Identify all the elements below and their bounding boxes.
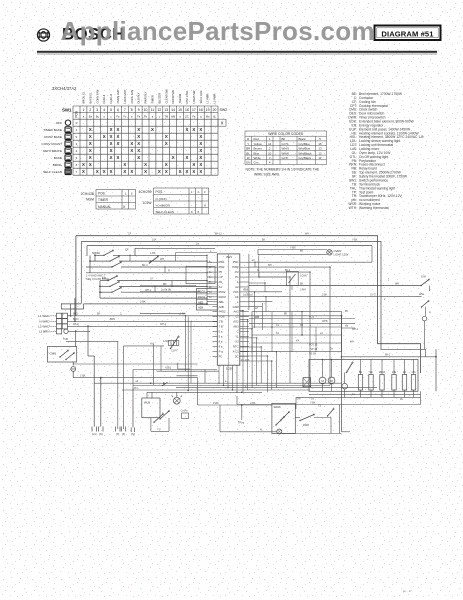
junction: [254, 262, 255, 263]
U1 inner divider: [228, 254, 230, 365]
wire shelf drop: [134, 248, 136, 256]
svg-text:MGM: MGM: [86, 198, 94, 202]
chassis lamp cross: [278, 430, 282, 434]
svg-text:OFF: OFF: [56, 121, 62, 125]
wire stub e: [207, 281, 213, 283]
svg-text:SW1b: SW1b: [274, 405, 282, 409]
wire wire 285: [140, 284, 196, 286]
svg-text:X: X: [137, 155, 140, 160]
wire fan drop 1: [371, 246, 373, 263]
frame line B: [81, 242, 425, 350]
junction: [206, 297, 207, 298]
svg-text:1: 1: [83, 108, 85, 112]
wire power wire 4: [68, 330, 90, 332]
junction: [264, 282, 265, 283]
svg-text:SE: SE: [369, 371, 373, 374]
svg-text:X: X: [165, 134, 168, 139]
switch mid-left: [170, 336, 179, 349]
transformer TR box: [303, 378, 311, 387]
svg-text:HSL: HSL: [419, 292, 425, 296]
svg-text:1a2B 1a3: 1a2B 1a3: [243, 294, 254, 296]
wire frame B left vertical: [80, 242, 82, 304]
svg-text:X: X: [151, 127, 154, 132]
row icon TIMED BAKE: [65, 127, 71, 133]
wire U1 bottom lead 4: [232, 365, 234, 390]
svg-text:L2 BRN: L2 BRN: [39, 330, 50, 334]
junction: [251, 328, 252, 329]
svg-text:10A: 10A: [152, 238, 157, 241]
svg-text:WH2: WH2: [73, 322, 79, 326]
oven lamp loop: [258, 250, 327, 255]
svg-text:BK: BK: [97, 313, 101, 316]
heating element BE: [358, 375, 362, 391]
wire drop x310: [309, 272, 311, 383]
relay board RB outline: [252, 312, 342, 352]
switch left-mid: [149, 256, 159, 264]
svg-text:AppliancePartsPros.com: AppliancePartsPros.com: [61, 16, 375, 46]
svg-text:1-BK: 1-BK: [180, 313, 186, 316]
switch chart grid: [73, 106, 218, 175]
resistor R1: [182, 413, 189, 419]
svg-text:L1 WHD: L1 WHD: [38, 314, 50, 318]
wire motor M2 lead: [331, 360, 333, 378]
wire bottom wire mid: [282, 433, 342, 435]
svg-text:BK: BK: [345, 310, 349, 313]
switch SW1b-b: [109, 256, 119, 262]
header rule: [37, 51, 437, 53]
DIAGRAM #51 label box: [375, 26, 441, 41]
svg-text:2 a: 2 a: [219, 330, 223, 334]
junction: [150, 260, 152, 262]
wire RB vert: [271, 312, 273, 352]
J2 divider: [197, 304, 218, 306]
wire WLB feed: [146, 392, 148, 398]
frame line A outer: [76, 236, 421, 373]
svg-text:2-BK: 2-BK: [322, 295, 328, 297]
svg-text:X: X: [117, 155, 120, 160]
svg-text:2CH/43B: 2CH/43B: [81, 192, 95, 196]
bottom terminal single: [131, 428, 134, 433]
heating element 25OA: [380, 375, 384, 391]
svg-text:GN: GN: [246, 161, 250, 165]
junction: [276, 351, 277, 352]
indicator lamp: [173, 397, 180, 404]
wire drop x290: [289, 277, 291, 383]
wire stub j: [213, 320, 218, 322]
wire: [100, 291, 112, 293]
wire element lead top BE: [360, 360, 362, 375]
wire element lead top 25OA: [381, 360, 383, 375]
wire M3 lead: [344, 389, 346, 397]
junction: [223, 385, 224, 386]
svg-text:X: X: [82, 169, 85, 174]
wire bundle drop x247.6: [247, 320, 249, 390]
wire bundle drop x267.3: [266, 356, 268, 392]
svg-text:A2B: A2B: [219, 305, 224, 309]
svg-text:Gry/Blue: Gry/Blue: [299, 142, 311, 146]
svg-text:W: W: [247, 156, 250, 160]
svg-text:9 a: 9 a: [219, 344, 223, 348]
junction: [99, 286, 101, 288]
svg-text:3W1: 3W1: [226, 255, 232, 259]
svg-text:NTC CTRL: NTC CTRL: [185, 90, 189, 104]
svg-text:PW1: PW1: [219, 260, 225, 264]
junction: [206, 286, 207, 287]
svg-text:X: X: [96, 169, 99, 174]
svg-text:P2: P2: [235, 270, 239, 274]
svg-text:X: X: [89, 134, 92, 139]
connector C1PY: [169, 341, 179, 346]
wire left drop 153: [153, 344, 155, 385]
svg-text:WH: WH: [305, 233, 309, 236]
junction: [206, 266, 207, 267]
wire bundle wire 4: [122, 389, 310, 391]
svg-text:BK-12: BK-12: [215, 233, 222, 236]
svg-text:CONV BAKE: CONV BAKE: [44, 135, 62, 139]
wire right bus 341: [341, 316, 343, 432]
svg-text:BE: BE: [359, 371, 363, 374]
junction: [341, 315, 343, 317]
wire row wire 304: [84, 303, 208, 305]
svg-text:10: 10: [268, 151, 272, 155]
wire left drop 2: [100, 378, 102, 427]
step wire: [178, 363, 190, 370]
svg-text:BAKE EL: BAKE EL: [88, 92, 92, 104]
wire element lead top 17A: [413, 360, 415, 375]
wire bundle wire 5: [147, 391, 262, 393]
wire long wire to SW3: [249, 285, 418, 287]
svg-text:3: 3: [96, 108, 98, 112]
wire WLB feed2: [151, 392, 153, 398]
svg-text:X: X: [110, 127, 113, 132]
svg-text:X: X: [221, 120, 224, 125]
svg-text:X: X: [192, 127, 195, 132]
wire right join: [425, 349, 427, 357]
svg-text:XL: XL: [213, 114, 217, 118]
svg-text:4CH/299: 4CH/299: [138, 190, 151, 194]
wire frame C left vertical: [86, 246, 88, 257]
wire RB inner 1: [252, 326, 342, 328]
junction: [241, 392, 243, 394]
svg-text:BUZZER: BUZZER: [157, 93, 161, 104]
wire drop 133b: [132, 370, 134, 388]
junction: [74, 320, 76, 322]
junction: [241, 404, 243, 406]
svg-text:TP(n): TP(n): [238, 422, 244, 425]
wire drop 237: [236, 396, 238, 405]
svg-text:CLEAN SW: CLEAN SW: [164, 89, 168, 104]
svg-text:X: X: [89, 141, 92, 146]
wire bundle drop x256.7: [256, 338, 258, 386]
wire: [86, 266, 112, 268]
svg-text:BAKE: BAKE: [54, 156, 62, 160]
svg-text:Ba: Ba: [89, 114, 93, 118]
svg-text:X: X: [186, 169, 189, 174]
junction: [265, 296, 266, 297]
svg-text:Wht/Black: Wht/Black: [299, 151, 313, 155]
J2 divider: [197, 293, 218, 295]
svg-text:17A: 17A: [411, 371, 416, 374]
wire jog r2: [258, 272, 260, 277]
svg-text:Yellow: Yellow: [254, 142, 263, 146]
wire U1 bottom lead 3: [227, 365, 229, 388]
svg-text:X2: X2: [235, 339, 239, 343]
wire jog r1: [254, 262, 256, 267]
svg-text:2-BK: 2-BK: [250, 402, 256, 405]
junction: [271, 360, 272, 361]
svg-text:L2 WHD: L2 WHD: [38, 325, 50, 329]
wire row wire 281: [117, 280, 207, 282]
svg-text:SELF CLEAN: SELF CLEAN: [43, 170, 62, 174]
svg-text:THERM: THERM: [178, 93, 182, 103]
svg-text:BRN: BRN: [110, 318, 115, 321]
svg-text:BK-2: BK-2: [285, 270, 291, 272]
svg-text:X: X: [199, 134, 202, 139]
svg-text:14: 14: [268, 142, 272, 146]
svg-text:DC: DC: [235, 354, 239, 358]
svg-text:X: X: [199, 169, 202, 174]
junction: [100, 377, 102, 379]
wire fan wire 4b: [249, 282, 265, 284]
svg-text:[1]: [1]: [116, 432, 119, 436]
oven lamp filament: [328, 251, 332, 255]
svg-text:CMS: CMS: [50, 352, 57, 356]
svg-text:X: X: [199, 127, 202, 132]
svg-text:LOCK MOT: LOCK MOT: [123, 89, 127, 103]
wire drop 331: [330, 418, 332, 434]
svg-text:X: X: [192, 162, 195, 167]
svg-text:14: 14: [171, 108, 175, 112]
junction: [206, 292, 207, 293]
svg-text:DIAGRAM #51: DIAGRAM #51: [381, 30, 434, 39]
clock switch CMS box: [48, 347, 77, 363]
junction: [87, 325, 89, 327]
switch ER-1: [107, 275, 117, 281]
switch ER-2: [109, 281, 119, 287]
switch DES-2: [280, 411, 289, 420]
wire element lead top E2: [404, 360, 406, 375]
svg-text:BRN: BRN: [73, 317, 79, 321]
wire bottom tail: [342, 431, 351, 433]
junction: [331, 359, 333, 361]
junction: [94, 254, 96, 256]
svg-text:18E: 18E: [392, 371, 397, 374]
heating element 18E: [392, 375, 396, 391]
svg-text:X: X: [172, 155, 175, 160]
svg-text:X: X: [89, 148, 92, 153]
wire row wire 261: [119, 260, 207, 262]
svg-text:WH-2: WH-2: [352, 328, 359, 331]
svg-text:X: X: [204, 203, 206, 207]
svg-text:Blue: Blue: [254, 151, 260, 155]
junction: [258, 276, 259, 277]
svg-text:CF: CF: [128, 233, 132, 236]
wire left collector: [206, 255, 208, 304]
junction: [163, 382, 165, 384]
wire row wire 267: [121, 266, 207, 268]
svg-text:P5O2: P5O2: [219, 290, 226, 294]
wire DWR lead 2: [314, 417, 331, 419]
svg-text:CONV ROAST: CONV ROAST: [42, 142, 63, 146]
wire stub k: [213, 325, 218, 327]
svg-text:X: X: [144, 162, 147, 167]
svg-text:WH: WH: [160, 258, 164, 261]
svg-text:Y: Y: [247, 142, 249, 146]
svg-text:11: 11: [151, 108, 155, 112]
wire left drop 1: [93, 356, 95, 427]
svg-text:A1: A1: [219, 285, 223, 289]
svg-text:TB: TB: [345, 325, 348, 328]
svg-text:P4O2: P4O2: [219, 310, 226, 314]
svg-text:GY/S: GY/S: [282, 142, 289, 146]
svg-text:12: 12: [157, 108, 161, 112]
svg-text:X: X: [199, 141, 202, 146]
svg-text:Warming thermostat: Warming thermostat: [359, 206, 389, 210]
wire right rail: [248, 254, 250, 310]
wire bottom line 3: [237, 404, 421, 406]
svg-text:X: X: [103, 134, 106, 139]
svg-text:X: X: [191, 210, 193, 214]
svg-text:POS.: POS.: [98, 192, 106, 196]
wire bundle wire 1: [94, 382, 341, 384]
junction: [75, 330, 77, 332]
svg-text:X: X: [110, 134, 113, 139]
wire U1 lower pin wire y319.7: [240, 319, 248, 321]
wire element lead bottom 18E: [393, 390, 395, 397]
svg-text:15: 15: [318, 142, 322, 146]
svg-text:10: 10: [144, 108, 148, 112]
wire lower bus 377: [73, 377, 198, 379]
wire right short: [420, 391, 422, 404]
svg-text:SEE COLOR CODE: SEE COLOR CODE: [86, 277, 110, 281]
svg-text:TIMER: TIMER: [150, 95, 154, 103]
svg-text:WIRE SIZE AWG.: WIRE SIZE AWG.: [254, 172, 280, 176]
heating element SE: [369, 375, 373, 391]
junction: [187, 390, 189, 392]
svg-text:1-4 WHD AWG 7: 1-4 WHD AWG 7: [86, 273, 106, 277]
svg-text:A2B: A2B: [198, 306, 203, 310]
element box outline: [309, 360, 418, 392]
wire fan wire 8: [249, 306, 262, 308]
svg-text:SW2: SW2: [220, 108, 228, 112]
svg-text:X: X: [199, 162, 202, 167]
wire bundle drop x261.2: [260, 347, 262, 383]
svg-text:2: 2: [89, 108, 91, 112]
wire jog c: [154, 286, 156, 292]
TR cross: [303, 378, 311, 387]
svg-text:TIMER: TIMER: [98, 198, 109, 202]
svg-text:VCC: VCC: [233, 290, 239, 294]
wire stub: [88, 355, 94, 357]
svg-text:X: X: [199, 155, 202, 160]
wire U1 bottom lead 5: [236, 365, 238, 392]
row icon DEHYDRATE: [65, 148, 71, 154]
svg-text:3XCH4/37A2: 3XCH4/37A2: [52, 86, 77, 91]
svg-text:X: X: [192, 169, 195, 174]
wire vert 254: [254, 292, 256, 328]
svg-text:CK: CK: [235, 295, 239, 299]
wire CMS feed: [75, 331, 77, 346]
junction: [171, 286, 172, 287]
svg-text:12: 12: [318, 151, 322, 155]
svg-text:X: X: [123, 169, 126, 174]
svg-text:SC: SC: [185, 114, 189, 118]
wire U1 lower pin wire y337.9: [240, 337, 257, 339]
svg-text:TCM: TCM: [219, 315, 226, 319]
junction: [129, 255, 130, 256]
svg-text:DEHYDRATE: DEHYDRATE: [43, 149, 62, 153]
wire drop 188: [187, 317, 189, 391]
wire U1 lower pin wire y361.0: [240, 360, 272, 362]
wire fan wire 1: [249, 261, 372, 263]
svg-text:O (OFF): O (OFF): [156, 197, 167, 201]
svg-text:BROIL EL: BROIL EL: [81, 91, 85, 104]
junction: [100, 377, 102, 379]
fan motor M3: [342, 383, 348, 389]
oven lamp OL: [327, 250, 332, 255]
junction: [267, 355, 268, 356]
wire power wire N WHD: [67, 320, 217, 322]
wire element lead bottom BE: [360, 390, 362, 397]
wire wire HSL: [361, 296, 418, 298]
junction: [309, 271, 310, 272]
junction: [256, 337, 257, 338]
wire jog b: [164, 267, 166, 273]
terminal lead dashes: [51, 315, 57, 317]
junction: [322, 359, 324, 361]
wire drop 191: [190, 321, 192, 383]
wire motor M1 lead: [322, 360, 324, 378]
svg-text:X: X: [110, 148, 113, 153]
junction: [232, 389, 233, 390]
svg-text:4: 4: [103, 108, 105, 112]
row icon OFF dial: [65, 120, 70, 125]
junction: [206, 260, 207, 261]
wire jog r3: [264, 283, 266, 292]
wire element lead bottom E2: [404, 390, 406, 397]
wire long wire 323: [249, 322, 355, 324]
thermal fuse TCO: [71, 367, 76, 372]
row icon CONV ROAST: [65, 141, 71, 147]
wire drop 258: [258, 256, 260, 278]
svg-text:OS 1B: OS 1B: [309, 354, 316, 356]
svg-text:X: X: [117, 134, 120, 139]
wire U1 lower pin wire y347.0: [240, 346, 261, 348]
wire RB vert 2: [291, 312, 293, 352]
wire bottom wire left: [151, 430, 169, 432]
wire wire 405: [198, 404, 272, 406]
svg-text:X: X: [123, 162, 126, 167]
svg-text:X: X: [165, 141, 168, 146]
component legend list: [348, 92, 424, 210]
wire stub f: [207, 286, 213, 288]
svg-text:WH/S: WH/S: [282, 147, 290, 151]
svg-text:7 B: 7 B: [219, 325, 223, 329]
relay K5 box: [286, 271, 298, 285]
wire sw4 drop: [425, 307, 427, 316]
wire drop 197: [197, 378, 199, 405]
wire stub g: [207, 291, 213, 293]
terminal block L1 WHD: [57, 313, 62, 318]
svg-text:mP: mP: [219, 275, 223, 279]
svg-text:25OA: 25OA: [379, 371, 386, 374]
wire vert 266: [265, 297, 267, 312]
junction: [341, 356, 343, 358]
wire bus 356: [342, 356, 437, 358]
wire stub h: [207, 296, 213, 298]
wire riser 2: [74, 298, 76, 321]
wire power wire L2 WHD: [67, 325, 217, 327]
